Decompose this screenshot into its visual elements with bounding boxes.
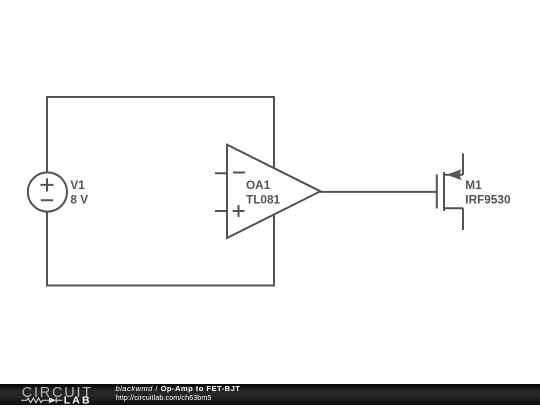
svg-text:IRF9530: IRF9530 — [465, 192, 511, 206]
svg-text:LAB: LAB — [64, 394, 92, 405]
svg-text:V1: V1 — [70, 178, 85, 192]
svg-text:M1: M1 — [465, 178, 482, 192]
svg-text:8 V: 8 V — [70, 193, 88, 207]
svg-text:OA1: OA1 — [246, 178, 271, 192]
svg-text:TL081: TL081 — [246, 192, 281, 206]
